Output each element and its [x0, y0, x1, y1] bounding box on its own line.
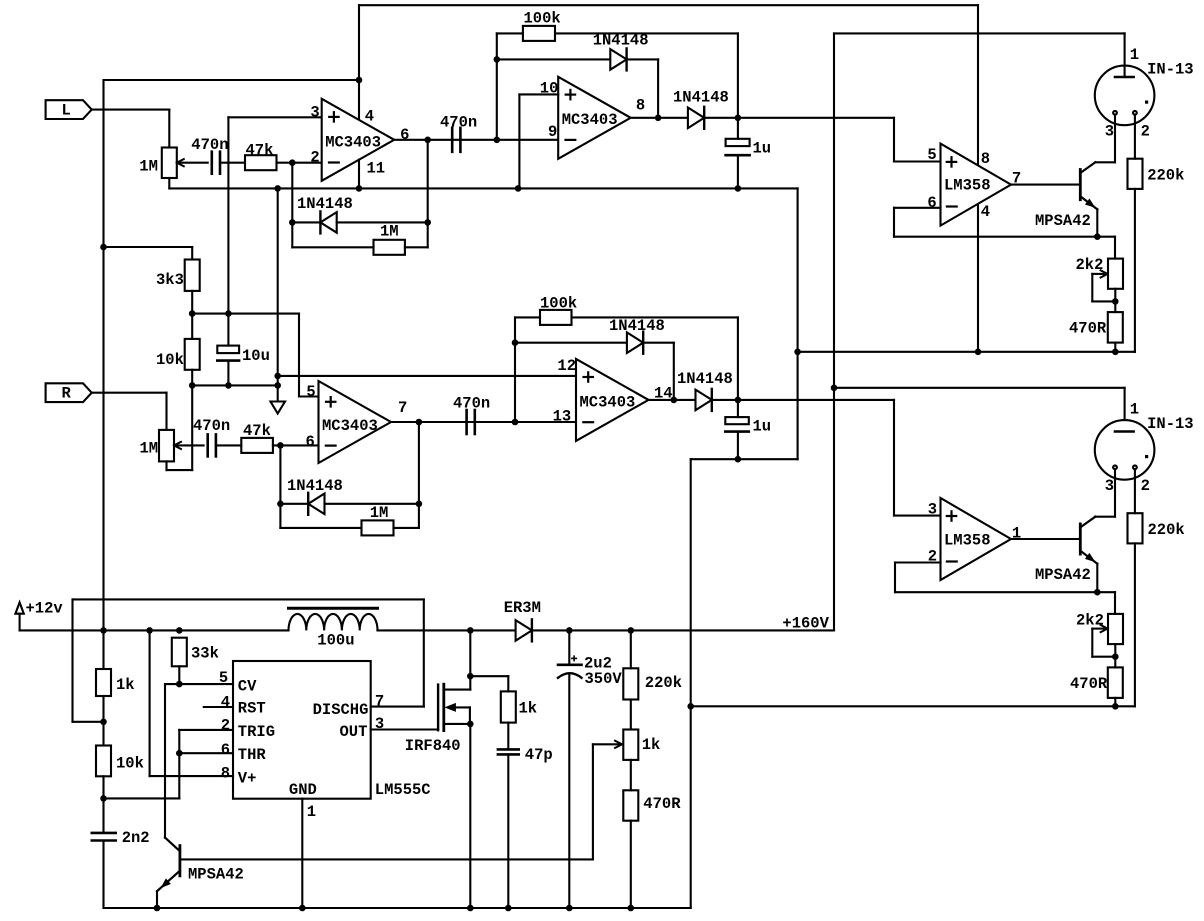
wire pin 6 feedback [894, 208, 941, 237]
wire cap to 47k R [216, 444, 241, 446]
wire x798 ground link [797, 188, 799, 459]
label 220k ch1 [1147, 167, 1184, 185]
wire 1M row right R [394, 527, 419, 529]
wire U1c output row [391, 421, 576, 423]
junction out/diode R [671, 397, 678, 404]
svg-text:RST: RST [238, 700, 266, 718]
tube IN-13 (2) [1095, 420, 1155, 513]
pin 1 label 555 [307, 803, 316, 821]
label 1k trimmer [642, 736, 661, 754]
label 470n R coupling [453, 395, 490, 413]
pin 11 label [367, 160, 386, 178]
wire bias to pin 3 [228, 117, 321, 313]
wire diode row left [292, 221, 320, 223]
svg-text:1k: 1k [116, 676, 135, 694]
label 100k [524, 10, 561, 28]
label 100k R [540, 295, 577, 313]
wire 47k to pin 2 [277, 162, 322, 164]
wire to 2n2 [102, 798, 104, 833]
resistor 1M (U1a feedback) [374, 240, 405, 255]
op-amp U2a LM358 [941, 144, 1012, 226]
svg-text:2k2: 2k2 [1076, 612, 1104, 630]
wire 100k right lead [555, 33, 738, 117]
U1b minus sign [566, 139, 576, 141]
wire R wiper to cap [174, 444, 204, 446]
diode 1N4148 (U1c feedback) [308, 493, 324, 515]
svg-text:1k: 1k [519, 700, 538, 718]
resistor 470R (ch1) [1108, 312, 1123, 343]
label LM358 U2b [944, 531, 991, 549]
svg-text:350V: 350V [585, 670, 623, 688]
label 47k [246, 141, 274, 159]
svg-text:220k: 220k [645, 674, 682, 692]
junction bus/555 GND [299, 905, 306, 912]
wire ground column [277, 188, 279, 401]
svg-text:1u: 1u [753, 417, 772, 435]
svg-text:1M: 1M [140, 440, 159, 458]
wire pin-2 feedback drop [291, 163, 293, 248]
junction source node [467, 721, 474, 728]
svg-text:1: 1 [307, 803, 316, 821]
label GND [289, 781, 317, 799]
wire Q3 base row [180, 858, 593, 860]
label MPSA42 Q3 [188, 866, 244, 884]
wire 220k leads [630, 630, 632, 729]
svg-text:220k: 220k [1147, 167, 1184, 185]
wire pin 2 feedback [895, 563, 941, 593]
junction bus2/470R [1112, 703, 1119, 710]
tube1 pin 3 label [1105, 123, 1114, 141]
label 470n R [193, 417, 230, 435]
junction 10u bottom [225, 382, 232, 389]
svg-text:MPSA42: MPSA42 [1035, 566, 1091, 584]
resistor 1M (U1c feedback) [362, 520, 394, 535]
wire inductor to diode [378, 629, 516, 631]
wire +12v row [20, 629, 289, 631]
ground symbol [271, 402, 286, 414]
U1a minus sign [329, 161, 339, 163]
junction bias/10u [225, 310, 232, 317]
svg-text:5: 5 [219, 669, 228, 687]
pin 2 label U2b [928, 547, 937, 565]
label 10k divider [156, 351, 184, 369]
wire L ground bus [169, 187, 797, 189]
junction +160V tube2 tap [831, 385, 838, 392]
resistor 1k (snubber) [501, 691, 516, 722]
tube1 pin 2 label [1141, 123, 1150, 141]
junction bus/470R divider [628, 905, 635, 912]
diode 1N4148 (U1a feedback) [320, 211, 336, 233]
svg-text:6: 6 [927, 194, 936, 212]
+12v symbol [15, 602, 23, 630]
svg-text:V+: V+ [238, 770, 257, 788]
wire DISCHG net [73, 599, 424, 721]
svg-text:6: 6 [221, 741, 230, 759]
label 470R divider [643, 795, 681, 813]
wire pin-12 row [278, 375, 576, 377]
label 1N4148 R rect [677, 370, 733, 388]
svg-text:MC3403: MC3403 [322, 417, 378, 435]
wire 47p to bus [507, 754, 509, 908]
svg-text:IN-13: IN-13 [1147, 61, 1194, 79]
svg-text:1N4148: 1N4148 [287, 477, 343, 495]
junction output/diode [655, 115, 662, 122]
svg-text:8: 8 [636, 96, 645, 114]
tube1 pin 1 label [1130, 46, 1139, 64]
wire diode row right [337, 221, 428, 223]
svg-text:47k: 47k [246, 141, 274, 159]
wire U2a output [1011, 184, 1080, 186]
svg-text:470n: 470n [453, 395, 490, 413]
svg-text:9: 9 [548, 123, 557, 141]
wire LM358 pins 8/4 supply column [977, 5, 979, 352]
wire 100k tap column R [514, 343, 516, 422]
resistor 470R (ch2) [1108, 667, 1123, 698]
wire divider top [104, 247, 193, 260]
trimmer 2k2 (ch1) [1092, 259, 1123, 302]
svg-text:6: 6 [400, 126, 409, 144]
wire CV pin [179, 683, 233, 685]
pin 7 label 555 [375, 693, 384, 711]
svg-text:1M: 1M [370, 504, 389, 522]
junction +12v/left bus [100, 627, 107, 634]
label MC3403 U1b [562, 111, 618, 129]
svg-text:L: L [62, 101, 71, 119]
junction cathode bus/x798 [794, 349, 801, 356]
wire +160V to tube 2 [834, 388, 1125, 432]
label DISCHG [313, 701, 369, 719]
wire 2k2 to 470R [1114, 289, 1116, 312]
junction 100k tap R [512, 419, 519, 426]
svg-text:220k: 220k [1148, 521, 1185, 539]
label 1u R [753, 417, 772, 435]
label LM358 [944, 177, 991, 195]
svg-text:1M: 1M [380, 223, 399, 241]
junction L bus / ground column [274, 185, 281, 192]
label L [62, 101, 71, 119]
tube2 pin 2 label [1141, 477, 1150, 495]
svg-text:10k: 10k [116, 755, 144, 773]
wire CV to Q3 collector [165, 684, 179, 838]
diode 1N4148 (R peak) [627, 332, 643, 354]
junction cathode bus/470R [1112, 349, 1119, 356]
label MPSA42 Q2 [1035, 566, 1091, 584]
label 1k left [116, 676, 135, 694]
wire 470R ch2 bottom [1114, 698, 1116, 706]
svg-text:IN-13: IN-13 [1147, 415, 1194, 433]
label 220k ch2 [1148, 521, 1185, 539]
wire pin-11 ground stub [358, 160, 360, 189]
wire diode row y342 [515, 342, 627, 344]
wire 10k leads timing [102, 722, 104, 799]
wire L pot bottom [168, 178, 170, 188]
label IN-13 (2) [1147, 415, 1194, 433]
pin 5 label 555 [219, 669, 228, 687]
wire MC3403 pin-4 supply drop [358, 5, 360, 120]
junction L bus / pin 11 [356, 185, 363, 192]
wire +12V feed to rail [104, 79, 360, 81]
svg-text:2: 2 [221, 717, 230, 735]
wire +160V rail [532, 629, 834, 631]
connector L [46, 100, 92, 119]
transistor Q3 MPSA42 [157, 838, 180, 908]
junction feedback diode row R [277, 501, 284, 508]
potentiometer 1M (R) [159, 430, 181, 462]
svg-text:3: 3 [1105, 123, 1114, 141]
pin 1 label U2b [1012, 525, 1021, 543]
svg-text:12: 12 [557, 357, 576, 375]
wire pin 10 [519, 94, 558, 188]
capacitor 1u (R) [725, 400, 749, 459]
svg-text:1N4148: 1N4148 [593, 32, 649, 50]
svg-text:8: 8 [221, 765, 230, 783]
svg-text:1: 1 [1130, 401, 1139, 419]
wire R pot bottom [167, 385, 193, 470]
wire cathode bus 1 [798, 351, 1135, 353]
svg-text:THR: THR [238, 746, 267, 764]
U1d minus sign [583, 421, 593, 423]
wire R ground bus [691, 458, 798, 460]
svg-text:TRIG: TRIG [238, 723, 275, 741]
wire 100k right lead R [572, 317, 738, 400]
label CV [238, 677, 257, 695]
pin 6 label U1c [306, 433, 315, 451]
pin 6 label 555 [221, 741, 230, 759]
pin 6 label U2a [927, 194, 936, 212]
resistor 220k (ch2) [1128, 513, 1143, 543]
pin 7 label U1c [398, 399, 407, 417]
svg-text:470R: 470R [1069, 319, 1107, 337]
label 1u [753, 139, 772, 157]
pin 9 label [548, 123, 557, 141]
wire divider ground row [192, 384, 278, 386]
svg-text:47p: 47p [525, 746, 553, 764]
wire +12V top rail [359, 4, 978, 6]
wire diode to output R [643, 343, 674, 400]
junction pin-6 node [277, 442, 284, 449]
wire cap to 47k [220, 162, 245, 164]
pin 7 label [1012, 170, 1021, 188]
label 1N4148 L peak [593, 32, 649, 50]
U1a plus sign [329, 112, 338, 121]
svg-text:2k2: 2k2 [1076, 256, 1104, 274]
wire 3k3 to 10k [191, 291, 193, 314]
label MC3403 U1d [580, 394, 636, 412]
label LM555C [375, 781, 431, 799]
U2a minus sign [947, 205, 957, 207]
junction bus/2u2 [566, 905, 573, 912]
capacitor 470n (R coupling) [467, 410, 475, 434]
wire drain to boost node [469, 630, 471, 676]
svg-text:1N4148: 1N4148 [609, 317, 665, 335]
wire cathode bus 2 [691, 705, 1135, 707]
resistor 10k (divider) [185, 339, 200, 370]
junction feedback diode row [289, 219, 296, 226]
svg-text:33k: 33k [191, 645, 219, 663]
label OUT [340, 723, 368, 741]
label 470R ch2 [1070, 675, 1108, 693]
junction boost drain node [467, 627, 474, 634]
svg-text:100u: 100u [317, 632, 354, 650]
svg-text:1k: 1k [642, 736, 661, 754]
junction timing node [100, 795, 107, 802]
junction emitter 2 [1094, 589, 1101, 596]
pin 8 label U2a [981, 150, 990, 168]
label ER3M [504, 599, 541, 617]
svg-text:MC3403: MC3403 [580, 394, 636, 412]
label +160V [782, 614, 829, 632]
tube2 pin 3 label [1105, 477, 1114, 495]
label 10k timing [116, 755, 144, 773]
svg-text:4: 4 [365, 107, 374, 125]
label 1N4148 [297, 195, 353, 213]
junction 1u node [735, 115, 742, 122]
label 1k snubber [519, 700, 538, 718]
junction L bus / pin 10 [515, 185, 522, 192]
pin 3 label U2b [928, 500, 937, 518]
wire 100k tap column [496, 59, 498, 139]
junction bus2/x690 [687, 703, 694, 710]
pin 12 label [557, 357, 576, 375]
wire timing node link [104, 797, 180, 799]
capacitor 2u2 350V [558, 630, 582, 908]
IC LM555C box [233, 661, 371, 799]
label MC3403 U1c [322, 417, 378, 435]
resistor 470R (HV divider) [623, 790, 638, 820]
junction pin-2 node [289, 159, 296, 166]
junction bus/Q3 emitter [154, 905, 161, 912]
U2a plus sign [947, 157, 956, 166]
svg-text:+160V: +160V [782, 614, 829, 632]
label 2k2 ch2 [1076, 612, 1104, 630]
U1c minus sign [326, 445, 336, 447]
wire output feedback drop [427, 140, 429, 248]
capacitor 1u (L) [726, 118, 750, 189]
resistor 47k (R) [241, 438, 273, 453]
op-amp U1d MC3403 [576, 359, 649, 441]
svg-text:OUT: OUT [340, 723, 368, 741]
resistor 220k (HV divider) [623, 668, 638, 699]
capacitor 10u [217, 314, 239, 386]
label MPSA42 Q1 [1035, 212, 1091, 230]
svg-text:11: 11 [367, 160, 386, 178]
svg-text:CV: CV [238, 677, 257, 695]
svg-text:1N4148: 1N4148 [677, 370, 733, 388]
svg-text:1N4148: 1N4148 [297, 195, 353, 213]
svg-text:2: 2 [1141, 123, 1150, 141]
svg-text:10: 10 [540, 80, 559, 98]
label 1M [139, 158, 158, 176]
label 1M U1c fb [370, 504, 389, 522]
svg-text:+12v: +12v [26, 600, 64, 618]
label 3k3 [156, 271, 184, 289]
wire 10k leads [191, 314, 193, 386]
junction output node [424, 137, 431, 144]
svg-text:10u: 10u [242, 347, 270, 365]
svg-text:2n2: 2n2 [122, 829, 150, 847]
tube2 pin 1 label [1130, 401, 1139, 419]
junction emitter 1 [1094, 233, 1101, 240]
label MC3403 U1a [325, 134, 381, 152]
capacitor 47p [498, 749, 519, 754]
resistor 3k3 [185, 260, 200, 291]
junction L bus / 1u [735, 185, 742, 192]
junction diode/1M right R [416, 501, 423, 508]
svg-text:1M: 1M [139, 158, 158, 176]
label V+ [238, 770, 257, 788]
svg-text:5: 5 [306, 383, 315, 401]
svg-text:5: 5 [927, 146, 936, 164]
wire U1d output [649, 400, 941, 516]
U1b plus sign [566, 90, 575, 99]
transistor IRF840 [438, 676, 470, 730]
pin 2 label 555 [221, 717, 230, 735]
svg-text:2: 2 [310, 149, 319, 167]
svg-text:6: 6 [306, 433, 315, 451]
svg-text:LM358: LM358 [944, 177, 991, 195]
label 47k R [243, 422, 271, 440]
pin 10 label [540, 80, 559, 98]
wire divider leads [630, 760, 632, 908]
capacitor 470n (L input) [212, 152, 220, 174]
wire TRIG pin [179, 730, 233, 799]
junction ground / pin-12 row [274, 373, 281, 380]
pin 8 label [636, 96, 645, 114]
svg-text:1N4148: 1N4148 [673, 88, 729, 106]
junction +160V/220k [628, 627, 635, 634]
resistor 47k (L) [245, 155, 277, 170]
junction diode/1M right [424, 219, 431, 226]
wire pin-6 feedback drop R [279, 445, 281, 528]
pin 4 label U2a [981, 203, 990, 221]
pin 6 label [400, 126, 409, 144]
connector R [46, 383, 92, 402]
resistor 1k (left) [96, 669, 111, 696]
wire OUT to gate [371, 728, 438, 730]
wire 33k to CV [178, 666, 180, 684]
op-amp U2b LM358 [941, 498, 1012, 580]
wire 220k ch2 down [1134, 543, 1136, 706]
op-amp U1b MC3403 [558, 77, 631, 159]
label THR [238, 746, 267, 764]
junction THR node [176, 750, 183, 757]
svg-text:4: 4 [981, 203, 990, 221]
resistor 220k (ch1) [1128, 159, 1143, 189]
U2b plus sign [947, 511, 956, 520]
diode 1N4148 (R rect) [696, 389, 712, 411]
wire 470R bottom [1114, 343, 1116, 352]
wire diode to output [627, 59, 659, 117]
wire 1k to 10k [102, 696, 104, 722]
label TRIG [238, 723, 275, 741]
wire V+ pin [150, 630, 233, 776]
potentiometer 1M (L) [162, 148, 184, 179]
pin 4 label [365, 107, 374, 125]
svg-text:3: 3 [928, 500, 937, 518]
resistor 100k (L) [523, 26, 555, 41]
svg-text:100k: 100k [524, 10, 561, 28]
diode 1N4148 (L rect) [688, 107, 704, 129]
label 2n2 [122, 829, 150, 847]
label 1M R [140, 440, 159, 458]
pin 3 label 555 [375, 715, 384, 733]
svg-text:3: 3 [310, 104, 319, 122]
resistor 33k [172, 638, 187, 667]
svg-text:GND: GND [289, 781, 317, 799]
wire 2k2 to 470R ch2 [1114, 644, 1116, 667]
wire source to ground bus [469, 724, 471, 908]
wire 1M row R [280, 527, 361, 529]
